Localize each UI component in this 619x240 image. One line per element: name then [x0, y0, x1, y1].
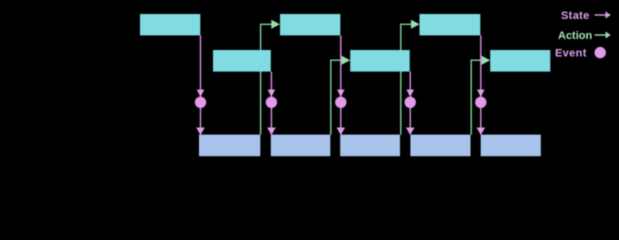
state box S2: [213, 50, 271, 72]
state box S5: [420, 14, 481, 35]
event line L4 (state S4 to event dot 4 to activity D): [405, 72, 416, 135]
event line L1 (state S1 to event dot 1 to activity A): [195, 35, 206, 135]
legend entry: Action: [558, 30, 611, 42]
state box S6: [490, 50, 550, 72]
event line L3 (state S3 to event dot 3 to activity C): [335, 35, 346, 135]
activity box C: [340, 135, 400, 157]
activity box B: [271, 135, 331, 157]
action connector G1 (activity A end to state S3): [261, 20, 280, 135]
action connector G2 (activity B end to state S4): [331, 56, 350, 135]
action connector G3 (activity C end to state S5): [401, 20, 420, 135]
legend entry: State: [561, 10, 611, 22]
event line L2 (state S2 to event dot 2 to activity B): [266, 72, 277, 135]
state box S4: [350, 50, 410, 72]
event line L5 (state S5 to event dot 5 to activity E): [475, 35, 486, 135]
svg-text:State: State: [561, 10, 590, 22]
activity box A: [199, 135, 260, 157]
activity box E: [481, 135, 541, 157]
svg-text:Action: Action: [558, 30, 593, 42]
state box S1: [140, 14, 200, 35]
activity box D: [410, 135, 470, 157]
action connector G4 (activity D end to state S6): [471, 56, 490, 135]
state box S3: [280, 14, 340, 35]
legend entry: Event: [555, 47, 606, 60]
svg-text:Event: Event: [555, 48, 587, 60]
